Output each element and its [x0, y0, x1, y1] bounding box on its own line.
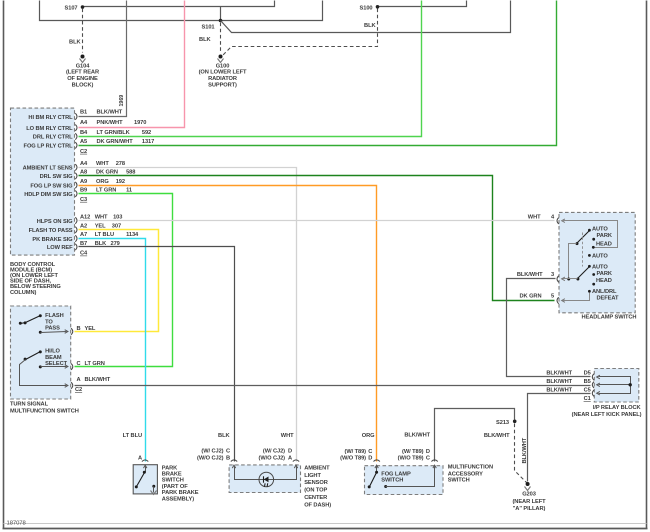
flash-to-pass switch contacts [19, 313, 64, 334]
svg-text:MULTIFUNCTION SWITCH: MULTIFUNCTION SWITCH [10, 408, 79, 414]
svg-text:LOW REF: LOW REF [47, 245, 73, 251]
svg-text:LT GRN: LT GRN [96, 187, 116, 193]
wire BLK/WHT fog lamp switch to S213 [435, 409, 515, 462]
svg-text:SWITCH: SWITCH [448, 478, 470, 484]
svg-text:WHT: WHT [528, 215, 541, 221]
svg-text:OF DASH): OF DASH) [304, 502, 331, 508]
svg-text:DRL RLY CTRL: DRL RLY CTRL [33, 135, 73, 141]
svg-text:588: 588 [126, 170, 135, 176]
BCM signal name labels [23, 115, 74, 251]
wire to pin C with arrow [41, 365, 68, 369]
svg-text:BLK/WHT: BLK/WHT [522, 437, 528, 463]
svg-text:HEAD: HEAD [596, 242, 612, 248]
svg-text:PK BRAKE SIG: PK BRAKE SIG [32, 237, 73, 243]
svg-text:S107: S107 [65, 6, 78, 12]
wire BLK/WHT headlamp pin 3 to relay D5 [507, 279, 591, 377]
svg-text:(W/ T89): (W/ T89) [345, 449, 367, 455]
node S101 [202, 19, 223, 31]
svg-text:B: B [77, 326, 81, 332]
svg-text:B4: B4 [80, 130, 88, 136]
svg-text:BLK/WHT: BLK/WHT [404, 432, 430, 438]
BCM pin A5 DK GRN/WHT [75, 139, 154, 149]
headlamp bank1 PARK contact [592, 233, 613, 241]
headlamp bank1 AUTO contact [588, 227, 608, 233]
headlamp bank2 HEAD contact [592, 278, 611, 286]
svg-text:SUPPORT): SUPPORT) [208, 83, 237, 89]
svg-text:187078: 187078 [7, 521, 27, 527]
svg-text:C5: C5 [584, 387, 591, 393]
svg-text:1317: 1317 [142, 139, 154, 145]
svg-text:LIGHT: LIGHT [304, 473, 321, 479]
BCM pin B7 BLK [75, 241, 119, 250]
wire label WHT [281, 433, 294, 439]
BCM pin A2 YEL [75, 223, 121, 233]
fog lamp switch box [365, 466, 444, 495]
svg-text:BLK: BLK [69, 40, 81, 46]
svg-text:BLK/WHT: BLK/WHT [546, 371, 572, 377]
headlamp bank2 PARK contact [592, 271, 613, 277]
svg-text:BLK/WHT: BLK/WHT [97, 110, 123, 116]
svg-text:AUTO: AUTO [592, 265, 608, 271]
svg-text:AUTO: AUTO [592, 254, 608, 260]
svg-text:S101: S101 [202, 25, 215, 31]
BCM connector C3 [80, 197, 87, 203]
wire BLK/WHT dashed S213 to G203 [484, 424, 527, 483]
svg-text:DRL SW SIG: DRL SW SIG [40, 174, 74, 180]
svg-text:S100: S100 [360, 5, 373, 11]
BCM pin A12 WHT [75, 215, 122, 224]
svg-text:DK GRN: DK GRN [520, 294, 542, 300]
svg-text:HEAD: HEAD [596, 278, 612, 284]
wire DK GRN 588 from BCM A8 to headlamp switch pin 5 [79, 176, 555, 301]
ambient sensor pin D A labels [259, 448, 300, 461]
svg-text:CENTER: CENTER [304, 495, 327, 501]
svg-text:HEADLAMP SWITCH: HEADLAMP SWITCH [582, 314, 637, 320]
svg-text:278: 278 [116, 161, 125, 167]
svg-text:BLOCK): BLOCK) [72, 83, 94, 89]
wire ORG 192 from BCM A9 to fog lamp switch pin C [79, 186, 377, 462]
svg-text:DEFEAT: DEFEAT [597, 295, 619, 301]
svg-text:ACCESSORY: ACCESSORY [448, 471, 483, 477]
svg-text:FOG LAMP: FOG LAMP [381, 471, 411, 477]
headlamp pin 5 [520, 294, 559, 304]
hi-lo beam select switch contacts [24, 349, 68, 369]
svg-text:TURN SIGNAL: TURN SIGNAL [10, 402, 49, 408]
svg-text:C: C [226, 448, 230, 454]
svg-text:I/P RELAY BLOCK: I/P RELAY BLOCK [593, 405, 642, 411]
svg-text:HI BM RLY CTRL: HI BM RLY CTRL [28, 115, 73, 121]
wire BLK dashed S107 to G104 [69, 9, 82, 53]
svg-text:LT BLU: LT BLU [95, 232, 114, 238]
wire LT GRN/BLK 592 from BCM B4 right and exiting top at x=421 [79, 1, 422, 137]
svg-text:HDLP DIM SW SIG: HDLP DIM SW SIG [24, 192, 73, 198]
svg-text:(LEFT REAR: (LEFT REAR [66, 69, 99, 75]
svg-text:D: D [368, 456, 372, 462]
svg-text:A: A [138, 456, 142, 462]
svg-text:HLPS ON SIG: HLPS ON SIG [37, 219, 73, 225]
BCM connector C4 [80, 251, 88, 257]
svg-text:SWITCH: SWITCH [381, 478, 403, 484]
svg-text:ANL/DRL: ANL/DRL [592, 289, 617, 295]
turn signal pin A [71, 377, 111, 389]
svg-text:BLK/WHT: BLK/WHT [85, 377, 111, 383]
wire stub from top rail down to S101 [220, 7, 222, 21]
headlamp bank1 switch arm [569, 231, 590, 279]
relay pin D5 [546, 371, 600, 381]
svg-text:(W/ CJ2): (W/ CJ2) [263, 448, 285, 454]
svg-text:SWITCH: SWITCH [162, 478, 184, 484]
svg-text:(W/O CJ2): (W/O CJ2) [259, 456, 286, 462]
svg-text:AMBIENT LT SENS: AMBIENT LT SENS [23, 166, 73, 172]
svg-text:YEL: YEL [95, 223, 106, 229]
svg-text:1970: 1970 [134, 120, 146, 126]
park brake internal ground [151, 485, 157, 495]
svg-text:PARK BRAKE: PARK BRAKE [162, 490, 199, 496]
svg-text:WHT: WHT [281, 433, 294, 439]
wire label BLK [218, 433, 230, 439]
svg-text:D: D [288, 448, 292, 454]
wire common to pin A [20, 360, 68, 388]
svg-text:LT GRN/BLK: LT GRN/BLK [97, 130, 131, 136]
headlamp middle AUTO contact [588, 254, 608, 260]
svg-text:(NEAR LEFT KICK PANEL): (NEAR LEFT KICK PANEL) [572, 412, 642, 418]
svg-text:C: C [368, 449, 372, 455]
svg-text:307: 307 [112, 223, 121, 229]
svg-text:LT BLU: LT BLU [123, 433, 142, 439]
svg-text:A9: A9 [80, 179, 87, 185]
ambient sensor pin C B labels [197, 448, 237, 461]
svg-text:(W/O CJ2): (W/O CJ2) [197, 456, 224, 462]
fog switch internal contacts [368, 465, 379, 488]
svg-text:FOG LP RLY CTRL: FOG LP RLY CTRL [24, 144, 74, 150]
relay connector C1 [584, 396, 591, 402]
svg-text:G203: G203 [522, 492, 536, 498]
wire BLK S100 rail exiting top at x=466 [378, 1, 467, 7]
svg-text:A7: A7 [80, 232, 87, 238]
svg-text:ASSEMBLY): ASSEMBLY) [162, 496, 194, 502]
turn signal pin C [71, 361, 105, 370]
svg-text:PNK/WHT: PNK/WHT [97, 120, 124, 126]
svg-text:BLK/WHT: BLK/WHT [484, 433, 510, 439]
svg-text:SENSOR: SENSOR [304, 480, 328, 486]
BCM connector C2 [80, 149, 87, 155]
park brake switch box [133, 465, 199, 503]
BCM pin B1 [75, 110, 122, 120]
headlamp mechanical link dashed [582, 233, 584, 267]
headlamp switch box [559, 212, 636, 320]
wire BLK/WHT relay C5 to ground G203 [522, 394, 591, 482]
svg-text:"A" PILLAR): "A" PILLAR) [513, 506, 546, 512]
svg-text:FLASH: FLASH [45, 313, 64, 319]
node S100 [360, 5, 380, 11]
svg-text:RADIATOR: RADIATOR [208, 76, 237, 82]
svg-text:OF ENGINE: OF ENGINE [67, 76, 98, 82]
svg-text:A: A [288, 456, 292, 462]
svg-text:5: 5 [551, 294, 554, 300]
svg-text:PASS: PASS [45, 326, 60, 332]
svg-text:BRAKE: BRAKE [162, 472, 182, 478]
svg-text:1134: 1134 [126, 232, 139, 238]
svg-text:COLUMN): COLUMN) [10, 290, 36, 296]
svg-text:103: 103 [113, 215, 122, 221]
headlamp bank2 switch arm [562, 267, 590, 281]
wire DK GRN/WHT 1317 from BCM A5 right and exiting top at x=555.5 [79, 1, 557, 146]
wire LT GRN 11 from BCM B9 to turn signal switch pin C [75, 194, 173, 367]
BCM pin A7 LT BLU [75, 232, 139, 242]
svg-text:YEL: YEL [85, 326, 96, 332]
svg-text:A12: A12 [80, 215, 90, 221]
fog switch pin D C labels right [398, 449, 438, 462]
body control module BCM box [11, 108, 75, 255]
headlamp bank1 HEAD contact [592, 242, 612, 249]
I P relay block box [572, 369, 642, 418]
svg-text:MULTIFUNCTION: MULTIFUNCTION [448, 464, 493, 470]
svg-text:(W/O T89): (W/O T89) [398, 456, 424, 462]
wire label LT BLU [123, 433, 142, 439]
node S107 [65, 5, 85, 11]
svg-text:BLK/WHT: BLK/WHT [517, 272, 543, 278]
svg-text:BLK/WHT: BLK/WHT [546, 387, 572, 393]
svg-text:192: 192 [116, 179, 125, 185]
BCM pin A4 WHT [75, 161, 125, 171]
ground G104 [66, 55, 99, 89]
svg-text:D: D [426, 449, 430, 455]
svg-text:AMBIENT: AMBIENT [304, 465, 330, 471]
svg-text:11: 11 [126, 187, 132, 193]
svg-text:(PART OF: (PART OF [162, 484, 188, 490]
svg-text:BLK: BLK [218, 433, 230, 439]
svg-text:(ON TOP: (ON TOP [304, 488, 327, 494]
svg-text:B5: B5 [584, 379, 591, 385]
svg-text:PARK: PARK [597, 233, 613, 239]
ground G203 [512, 482, 546, 512]
svg-text:A2: A2 [80, 223, 87, 229]
ambient light sensor box [229, 465, 331, 508]
svg-text:(W/O T89): (W/O T89) [340, 456, 366, 462]
wire label ORG [362, 433, 375, 439]
wire BLK dashed S100 branch to G100 [223, 9, 378, 56]
svg-text:WHT: WHT [95, 215, 108, 221]
wire BLK/WHT from turn signal pin A to I P relay block pin B5 [75, 385, 591, 387]
headlamp internal wire pin 5 to defeat contact [562, 293, 590, 303]
svg-text:BLK: BLK [364, 23, 376, 29]
svg-text:TO: TO [45, 319, 53, 325]
relay pin B5 [546, 379, 600, 388]
wire LT BLU 1134 from BCM A7 to park brake switch pin A [79, 239, 146, 462]
turn signal multifunction switch box [10, 306, 79, 414]
svg-text:A8: A8 [80, 170, 87, 176]
multifunction accessory switch label [448, 464, 493, 483]
svg-text:(W/ CJ2): (W/ CJ2) [201, 448, 223, 454]
svg-text:C2: C2 [75, 387, 82, 393]
BCM pin A4 PNK/WHT [75, 120, 146, 131]
park brake internal switch [135, 465, 147, 488]
svg-text:WHT: WHT [96, 161, 109, 167]
wire label BLK/WHT fog [404, 432, 430, 438]
svg-text:BLK: BLK [199, 37, 211, 43]
svg-text:C1: C1 [584, 396, 591, 402]
svg-text:LT GRN: LT GRN [85, 361, 105, 367]
ambient sensor internal wiring with arrows [232, 465, 297, 479]
svg-text:DK GRN: DK GRN [96, 170, 118, 176]
svg-text:A: A [77, 377, 81, 383]
svg-text:LO BM RLY CTRL: LO BM RLY CTRL [26, 126, 73, 132]
svg-text:BLK/WHT: BLK/WHT [546, 379, 572, 385]
svg-text:C: C [426, 456, 430, 462]
svg-text:S213: S213 [496, 420, 509, 426]
BCM label [10, 262, 61, 296]
fog switch internal wire to right pin [384, 465, 436, 488]
svg-text:PARK: PARK [162, 465, 178, 471]
headlamp pin 3 [517, 272, 565, 282]
wire BLK dashed S101 to G100 [199, 23, 220, 53]
fog switch pin C D labels [340, 449, 380, 462]
svg-text:A4: A4 [80, 120, 88, 126]
svg-text:C3: C3 [80, 197, 87, 203]
BCM pin A9 ORG [75, 179, 125, 189]
svg-text:A5: A5 [80, 139, 87, 145]
headlamp ANL DRL DEFEAT contact [588, 289, 619, 301]
wire BLK/WHT 1969 from BCM B1 up to rail 2 [79, 1, 127, 117]
svg-text:FLASH TO PASS: FLASH TO PASS [29, 228, 73, 234]
headlamp internal wire pin 4 loop to HEAD contact [562, 221, 618, 248]
svg-text:(W/ T89): (W/ T89) [402, 449, 424, 455]
svg-text:3: 3 [551, 272, 554, 278]
svg-text:DK GRN/WHT: DK GRN/WHT [97, 139, 134, 145]
relay pin C5 [546, 387, 600, 396]
headlamp pin 4 [528, 215, 565, 225]
wire WHT 103 from BCM A12 to headlamp switch pin 4 [79, 220, 555, 222]
wire BLK from S101 diagonal to right rail exiting top at x=510 [221, 1, 511, 33]
wire BLK 279 from BCM B7 to ambient light sensor pin C [79, 247, 235, 462]
svg-text:C: C [77, 361, 81, 367]
BCM pin B9 LT GRN [75, 187, 132, 197]
BCM pin A8 DK GRN [75, 170, 135, 180]
wire PNK/WHT 1970 from BCM A4 up to rail 2 [79, 1, 185, 128]
svg-text:B: B [226, 456, 230, 462]
svg-text:C2: C2 [80, 149, 87, 155]
svg-text:D5: D5 [584, 371, 591, 377]
svg-text:592: 592 [142, 130, 151, 136]
svg-text:B9: B9 [80, 187, 87, 193]
svg-text:(ON LOWER LEFT: (ON LOWER LEFT [199, 69, 247, 75]
headlamp bank2 AUTO contact [588, 265, 608, 271]
svg-text:A4: A4 [80, 161, 88, 167]
svg-text:1969: 1969 [119, 95, 125, 107]
turn signal connector C2 [75, 387, 82, 393]
ground G100 [199, 55, 247, 89]
svg-text:BEAM: BEAM [45, 355, 62, 361]
ambient sensor photodiode [259, 472, 274, 487]
node S213 [496, 420, 516, 426]
park brake switch pin A [138, 456, 148, 462]
svg-text:ORG: ORG [362, 433, 375, 439]
svg-text:AUTO: AUTO [592, 227, 608, 233]
svg-text:HI/LO: HI/LO [45, 349, 60, 355]
wire YEL 307 from BCM A2 to turn signal switch pin B [75, 230, 159, 332]
wire BLK top rail from S107 exiting top at x=273.5 [83, 1, 275, 7]
wire BLK rail 2 through S101 [40, 1, 323, 21]
svg-text:C4: C4 [80, 251, 88, 257]
svg-text:B1: B1 [80, 110, 87, 116]
relay internal bus [599, 377, 632, 394]
wire WHT 278 from BCM A4 to ambient light sensor pin D [79, 168, 297, 462]
svg-text:(NEAR LEFT: (NEAR LEFT [512, 499, 546, 505]
BCM pin B4 LT GRN/BLK [75, 130, 151, 140]
svg-text:ORG: ORG [96, 179, 109, 185]
svg-text:PARK: PARK [597, 271, 613, 277]
svg-text:FOG LP SW SIG: FOG LP SW SIG [30, 183, 73, 189]
turn signal pin B [71, 326, 96, 335]
wire to pin B with arrow [41, 330, 68, 334]
